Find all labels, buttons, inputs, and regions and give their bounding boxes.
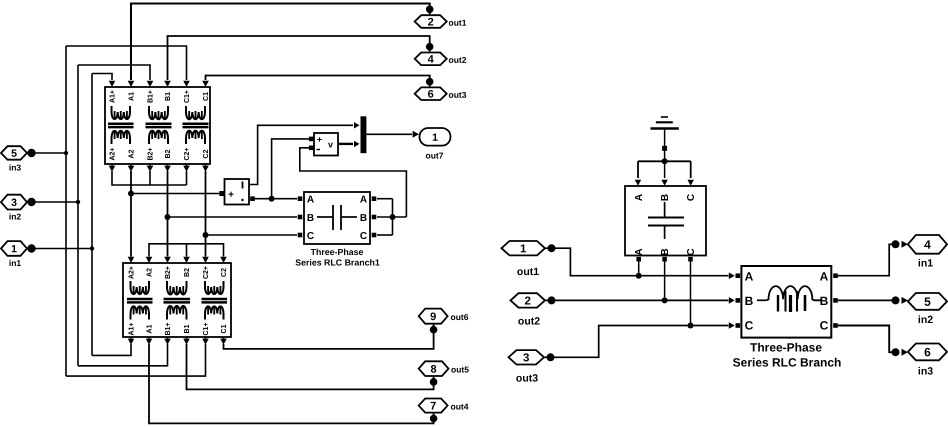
svg-text:C: C (307, 231, 314, 242)
label Three-Phase Series RLC Branch (733, 340, 842, 369)
svg-text:B2+: B2+ (165, 266, 172, 279)
svg-text:A: A (745, 269, 754, 283)
svg-text:B: B (307, 213, 314, 224)
wire in3 to bus (27, 149, 68, 157)
block U2 voltage measurement (314, 133, 338, 156)
svg-text:A: A (307, 194, 314, 205)
svg-text:in3: in3 (9, 162, 22, 172)
wire junction up to voltmeter plus input (272, 137, 314, 199)
wire T2.C1+ to left bus (66, 344, 206, 376)
wire tap A2 to plus-block (131, 193, 219, 195)
wire voltmeter output to mux input 2 (338, 141, 360, 147)
inport 5 in3 (1, 146, 27, 172)
svg-text:4: 4 (428, 54, 435, 66)
inport 1 in1 (1, 241, 27, 268)
wire T2.A1 to port out4 (149, 344, 434, 423)
svg-text:A1: A1 (129, 92, 136, 101)
svg-text:A2+: A2+ (129, 266, 136, 279)
svg-text:1: 1 (11, 243, 17, 255)
RLC branch output port squares (833, 273, 838, 327)
svg-text:3: 3 (11, 197, 17, 209)
block U1 current measurement (225, 179, 250, 205)
wire out1 to RLC branch A (545, 244, 735, 279)
outport 4 out2 (415, 43, 467, 66)
outport 9 out6 (419, 309, 469, 334)
svg-text:in2: in2 (9, 211, 22, 221)
mux block (361, 116, 367, 153)
svg-text:B: B (360, 213, 367, 224)
inport 5 in2 (908, 293, 947, 326)
wire tap C2 to RLC1 C input (206, 234, 298, 236)
wire RLC branch B to in2 (838, 296, 908, 304)
svg-text:B: B (660, 194, 671, 201)
svg-text:4: 4 (924, 238, 931, 252)
svg-text:B1+: B1+ (148, 90, 155, 103)
svg-text:C: C (686, 194, 697, 201)
svg-text:out1: out1 (517, 266, 539, 278)
svg-text:out3: out3 (448, 90, 466, 100)
wire T1 neutral bus (A2+,B2+,C2+) (112, 171, 187, 185)
svg-text:C2+: C2+ (203, 266, 210, 279)
svg-text:out4: out4 (450, 402, 468, 412)
wire T2 neutral bus (A2,B2,C2) (149, 244, 224, 257)
inport 6 in3 (908, 344, 947, 378)
svg-text:C: C (360, 231, 367, 242)
svg-text:C1+: C1+ (184, 90, 191, 103)
svg-text:A1+: A1+ (129, 322, 136, 335)
svg-text:Three-Phase: Three-Phase (750, 340, 822, 354)
T1 top port arrows (109, 81, 209, 87)
wire tap B2 to RLC1 B input (168, 216, 298, 218)
inport 4 in1 (908, 235, 947, 270)
outport 6 out3 (415, 78, 467, 101)
wire capacitor B drop (662, 262, 668, 304)
RLC1 input port squares (298, 196, 303, 237)
svg-text:Series RLC Branch1: Series RLC Branch1 (295, 257, 380, 267)
svg-text:out2: out2 (518, 315, 540, 327)
svg-text:in3: in3 (918, 365, 933, 377)
plus-block input port square (219, 191, 224, 196)
transformer block T1 (105, 87, 210, 164)
wire T1.B2+ stub (149, 171, 151, 185)
svg-text:v: v (328, 139, 333, 149)
svg-text:out6: out6 (450, 312, 468, 322)
inport 1 out1 (right diagram) (502, 241, 546, 278)
transformer block T2 (123, 263, 231, 337)
wire ground distribution rail (635, 158, 694, 185)
svg-text:in1: in1 (9, 258, 22, 268)
wire U1 top output to mux input 1 (249, 122, 360, 184)
wire in1 to bus (27, 244, 94, 252)
svg-text:in2: in2 (918, 314, 933, 326)
svg-text:6: 6 (924, 345, 931, 359)
svg-text:C2: C2 (221, 268, 228, 277)
svg-text:B1: B1 (165, 92, 172, 101)
wire out2 to RLC branch B (545, 296, 735, 304)
svg-text:2: 2 (428, 16, 434, 28)
wire out2 rail (T1.B1 to port out2) (168, 36, 430, 80)
svg-text:C1+: C1+ (203, 322, 210, 335)
svg-text:B2: B2 (165, 149, 172, 158)
RLC branch input port squares (736, 273, 741, 327)
wire vertical bus in3/C1+ (65, 46, 67, 376)
svg-text:C: C (745, 318, 754, 332)
wire RLC branch C to in3 (838, 326, 908, 357)
wire RLC1 outputs shorted (377, 199, 406, 235)
svg-text:A1+: A1+ (110, 90, 117, 103)
wire U1 output to RLC1 A input (250, 196, 297, 202)
svg-text:1: 1 (520, 243, 527, 255)
svg-text:out7: out7 (426, 150, 444, 160)
svg-text:in1: in1 (918, 257, 933, 269)
wire T1.C2 down to T2.C2+ (203, 171, 209, 257)
svg-text:out3: out3 (516, 372, 538, 384)
svg-text:out2: out2 (448, 55, 466, 65)
inport 3 out3 (right diagram) (509, 350, 545, 384)
inport 3 in2 (1, 195, 27, 222)
wire left rail to T1.A1+ (92, 74, 112, 81)
block Three-Phase Series RLC Branch (741, 266, 831, 338)
svg-text:5: 5 (924, 295, 931, 309)
label Three-Phase Series RLC Branch1 (295, 247, 380, 268)
wire T2.B1 to port out5 (187, 344, 434, 389)
wire out1 rail (T1.A1 to port out1) (131, 4, 430, 81)
svg-text:A: A (360, 194, 367, 205)
svg-text:9: 9 (430, 311, 436, 323)
wire capacitor C drop (688, 262, 694, 329)
svg-text:C1: C1 (221, 324, 228, 333)
svg-text:A: A (820, 269, 829, 283)
svg-text:1: 1 (432, 132, 438, 144)
svg-text:A2: A2 (129, 149, 136, 158)
wire T1.B2 down to T2.B2+ (165, 171, 171, 257)
wire T2.B1+ to left bus (78, 344, 168, 366)
capacitor symbol inside RLC1 (317, 205, 357, 230)
svg-text:C1: C1 (203, 92, 210, 101)
wire left rail to T1.C1+ (66, 46, 187, 80)
wire mux output to out7 (366, 131, 419, 138)
T2 top port arrows (128, 257, 227, 263)
wire T1.C2+ stub (186, 171, 188, 185)
wire RLC branch A to in1 (838, 240, 908, 275)
svg-text:7: 7 (430, 401, 436, 413)
svg-text:B1+: B1+ (165, 322, 172, 335)
svg-text:3: 3 (523, 352, 529, 364)
svg-text:8: 8 (431, 364, 437, 376)
svg-text:A2: A2 (147, 268, 154, 277)
svg-text:Series RLC Branch: Series RLC Branch (733, 355, 842, 369)
capacitor bank bottom port squares (636, 257, 692, 262)
svg-text:C: C (686, 248, 697, 255)
svg-text:out1: out1 (448, 18, 466, 28)
svg-text:Three-Phase: Three-Phase (311, 247, 364, 257)
wire left rail to T1.B1+ (78, 65, 150, 80)
block Three-Phase Series RLC Branch1 (304, 192, 370, 244)
svg-text:+: + (228, 189, 234, 200)
wire T1.A2 down to T2.A2+ (128, 171, 134, 257)
svg-text:C: C (820, 318, 829, 332)
svg-text:A2+: A2+ (110, 147, 117, 160)
svg-text:A: A (634, 248, 645, 255)
outport 2 out1 (415, 6, 467, 29)
svg-text:A1: A1 (147, 324, 154, 333)
inport 2 out2 (right diagram) (511, 293, 546, 327)
wire T2.C1 to port out6 (224, 330, 434, 349)
wire capacitor A drop (636, 262, 642, 279)
svg-text:5: 5 (11, 148, 17, 160)
wire voltmeter minus input from RLC1 outputs (300, 146, 407, 218)
outport 8 out5 (419, 361, 470, 385)
wire T2.B2 stub (186, 244, 188, 257)
wire vertical bus in2/B1+ (77, 65, 79, 366)
RLC1 output port squares (372, 196, 377, 237)
svg-text:6: 6 (428, 89, 434, 101)
svg-text:B1: B1 (184, 324, 191, 333)
wire out3 to RLC branch C (544, 322, 735, 361)
outport 7 out4 (419, 399, 469, 423)
wire vertical bus in1/A1+ (91, 74, 93, 356)
svg-text:C2+: C2+ (184, 147, 191, 160)
wire T2.A1+ to left bus (92, 344, 131, 355)
svg-text:B2: B2 (184, 268, 191, 277)
svg-text:C2: C2 (203, 149, 210, 158)
svg-text:B2+: B2+ (148, 147, 155, 160)
wire out3 rail (T1.C1 to port out3) (206, 76, 430, 83)
svg-text:out5: out5 (451, 365, 469, 375)
wire in2 to bus (27, 198, 80, 206)
T1 bottom port arrows (109, 164, 209, 172)
svg-text:B: B (660, 248, 671, 255)
outport 1 out7 (420, 128, 451, 161)
svg-text:+: + (317, 134, 322, 144)
T2 bottom port arrows (128, 337, 227, 345)
svg-text:2: 2 (525, 296, 531, 308)
svg-text:B: B (745, 294, 754, 308)
inductor symbol inside RLC branch (757, 286, 822, 312)
capacitor symbol inside capacitor bank (648, 202, 684, 239)
ground symbol (651, 117, 679, 161)
block grounding capacitor bank (625, 186, 706, 256)
svg-text:A: A (634, 194, 645, 201)
